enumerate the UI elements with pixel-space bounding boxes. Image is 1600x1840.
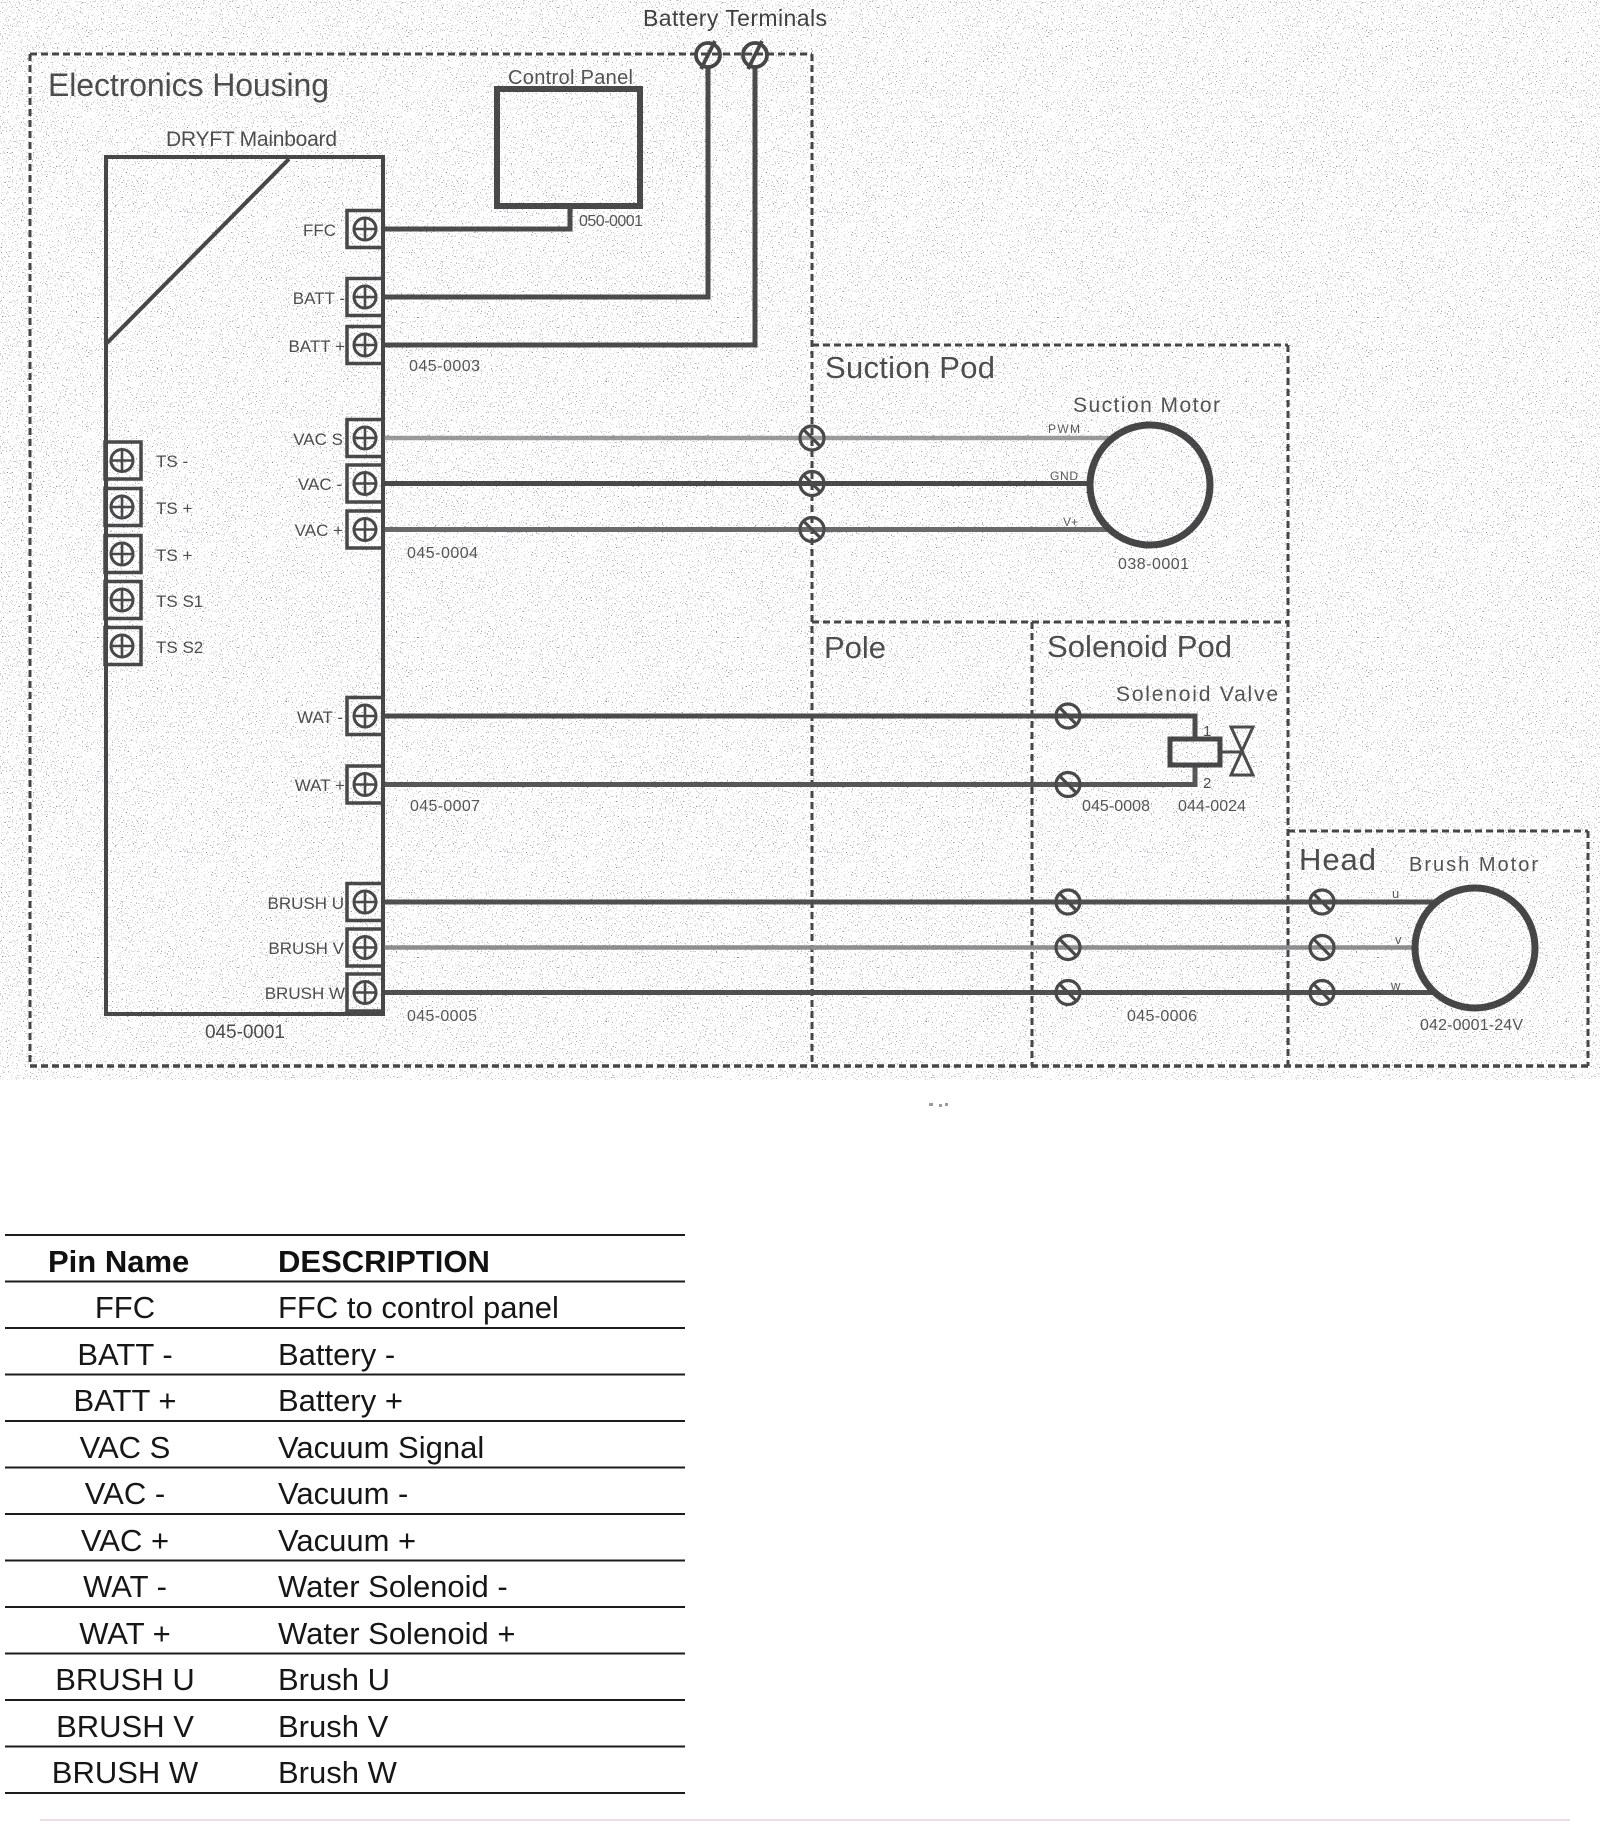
svg-text:BRUSH V: BRUSH V <box>56 1709 194 1744</box>
svg-text:BATT -: BATT - <box>77 1337 172 1372</box>
terminal VAC S <box>347 420 383 457</box>
motor M2 Brush Motor <box>1415 888 1535 1008</box>
faint footer rule <box>40 1819 1570 1821</box>
svg-text:WAT +: WAT + <box>79 1616 171 1651</box>
terminal VAC + <box>347 511 383 548</box>
enclosure Head (dashed box) <box>1288 831 1588 1066</box>
enclosure Suction Pod (dashed box) <box>812 345 1288 1066</box>
svg-text:Water Solenoid -: Water Solenoid - <box>278 1569 508 1604</box>
junction BRUSH V at Head <box>1310 936 1334 960</box>
enclosure Electronics Housing (dashed box) <box>30 54 812 1066</box>
wire VAC - <box>383 481 1091 486</box>
wire WAT + to solenoid pin 2 <box>383 765 1195 785</box>
bottom dashed border (all pods) <box>30 1064 1590 1068</box>
terminal BRUSH V <box>347 929 383 966</box>
junction VAC S at Suction Pod border <box>800 426 824 450</box>
terminal TS - <box>105 442 141 479</box>
svg-text:Pin Name: Pin Name <box>48 1244 189 1279</box>
terminal WAT + <box>347 766 383 803</box>
wire BRUSH V <box>383 945 1416 950</box>
table ruled lines <box>5 1235 685 1793</box>
svg-text:BRUSH U: BRUSH U <box>55 1662 195 1697</box>
battery terminal - (circle with slash) <box>696 41 720 69</box>
svg-text:Brush V: Brush V <box>278 1709 389 1744</box>
junction BRUSH U at Head <box>1310 890 1334 914</box>
enclosure Pole right border <box>1031 622 1034 1066</box>
wire VAC + <box>383 527 1111 532</box>
svg-text:Vacuum +: Vacuum + <box>278 1523 416 1558</box>
terminal WAT - <box>347 698 383 735</box>
terminal BRUSH W <box>347 974 383 1011</box>
junction WAT + at Solenoid Pod <box>1056 773 1080 797</box>
wire FFC to control panel <box>383 206 570 229</box>
svg-text:VAC -: VAC - <box>85 1476 165 1511</box>
table header row <box>48 1244 490 1279</box>
svg-text:Vacuum Signal: Vacuum Signal <box>278 1430 484 1465</box>
junction BRUSH W at Solenoid Pod <box>1056 981 1080 1005</box>
scan speckle noise overlay <box>0 0 1600 1080</box>
wire VAC S (vacuum signal) <box>383 436 1114 441</box>
terminal TS S2 <box>105 628 141 665</box>
U2 Control Panel (box) <box>497 89 640 206</box>
terminal TS + (1) <box>105 489 141 526</box>
U1 DRYFT Mainboard (box) <box>106 157 383 1014</box>
svg-text:VAC +: VAC + <box>81 1523 169 1558</box>
battery terminal + (circle with slash) <box>743 41 767 69</box>
terminal TS + (2) <box>105 536 141 573</box>
GROUP: pin description table <box>5 1235 685 1793</box>
wire BRUSH W <box>383 990 1436 995</box>
svg-text:Brush U: Brush U <box>278 1662 390 1697</box>
terminal FFC <box>347 211 383 248</box>
valve symbol (hourglass) <box>1220 727 1253 775</box>
wire BATT - to battery terminal <box>383 66 708 297</box>
svg-text:FFC: FFC <box>95 1290 155 1325</box>
svg-text:Water Solenoid +: Water Solenoid + <box>278 1616 516 1651</box>
svg-text:DESCRIPTION: DESCRIPTION <box>278 1244 490 1279</box>
svg-text:FFC to control panel: FFC to control panel <box>278 1290 559 1325</box>
terminal BATT + <box>347 327 383 364</box>
junction BRUSH U at Solenoid Pod <box>1056 890 1080 914</box>
svg-text:BATT +: BATT + <box>73 1383 176 1418</box>
svg-text:Battery -: Battery - <box>278 1337 395 1372</box>
motor M1 Suction Motor <box>1090 425 1210 545</box>
junction BRUSH V at Solenoid Pod <box>1056 936 1080 960</box>
svg-text:BRUSH W: BRUSH W <box>52 1755 199 1790</box>
GROUP: scanned wiring diagram <box>30 5 1590 1066</box>
junction VAC - at Suction Pod border <box>800 472 824 496</box>
terminal BATT - <box>347 279 383 316</box>
junction WAT - at Solenoid Pod <box>1056 704 1080 728</box>
wire BRUSH U <box>383 900 1437 905</box>
terminal VAC - <box>347 465 383 502</box>
wire BATT + to battery terminal <box>383 66 755 345</box>
svg-text:WAT -: WAT - <box>83 1569 167 1604</box>
svg-text:VAC S: VAC S <box>80 1430 171 1465</box>
enclosure Pole / Solenoid Pod top border <box>812 621 1288 624</box>
junction BRUSH W at Head <box>1310 981 1334 1005</box>
junction VAC + at Suction Pod border <box>800 518 824 542</box>
table rows <box>52 1290 559 1790</box>
wire WAT - to solenoid pin 1 <box>383 716 1195 739</box>
terminal BRUSH U <box>347 884 383 921</box>
terminal TS S1 <box>105 582 141 619</box>
svg-text:Brush W: Brush W <box>278 1755 398 1790</box>
svg-text:Battery +: Battery + <box>278 1383 403 1418</box>
svg-text:Vacuum -: Vacuum - <box>278 1476 408 1511</box>
solenoid valve U3 (coil box) <box>1170 739 1220 765</box>
